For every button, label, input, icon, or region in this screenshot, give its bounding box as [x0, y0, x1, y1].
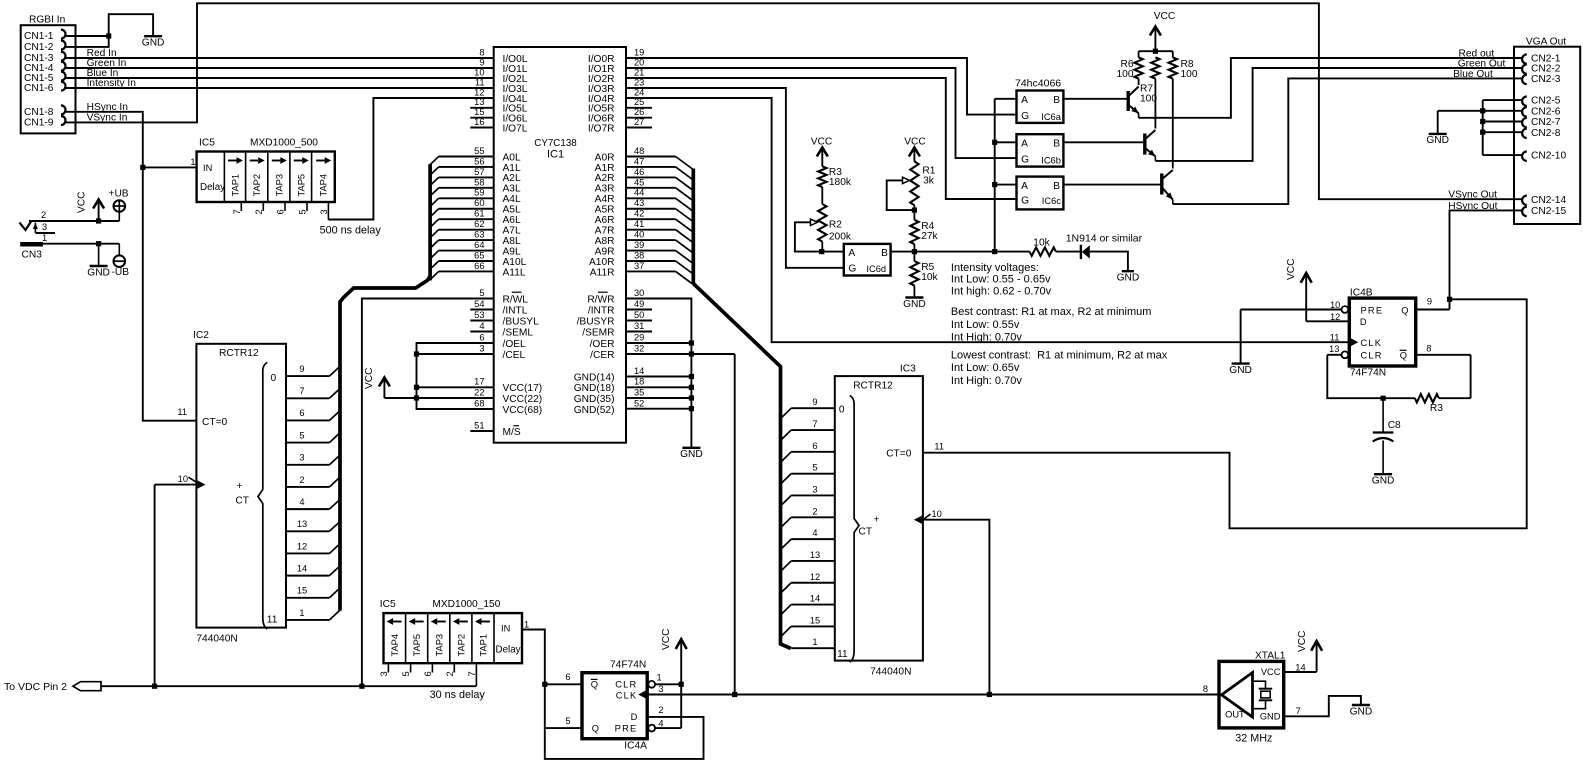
svg-text:/CEL: /CEL	[503, 350, 526, 361]
junction A IC6c	[992, 182, 997, 187]
svg-text:VSync Out: VSync Out	[1448, 190, 1497, 201]
svg-text:CN2-7: CN2-7	[1531, 117, 1561, 128]
svg-text:3: 3	[319, 209, 329, 214]
transistor Q3 (blue)	[1162, 0, 1523, 204]
pin CN2-7	[1522, 117, 1561, 128]
svg-text:39: 39	[634, 240, 644, 250]
svg-text:5: 5	[565, 716, 570, 726]
pin 1 wire (CN3)	[42, 233, 119, 244]
svg-text:Blue Out: Blue Out	[1453, 69, 1493, 80]
delay line IC5 MXD1000_500	[190, 138, 334, 202]
svg-text:D: D	[631, 712, 638, 722]
svg-text:IC6d: IC6d	[866, 264, 886, 274]
svg-text:G: G	[848, 264, 856, 275]
svg-text:744040N: 744040N	[196, 634, 237, 645]
svg-text:Int Low: 0.65v: Int Low: 0.65v	[951, 362, 1020, 374]
wire Qbar out (IC4B)	[1416, 355, 1471, 398]
transistor Q1 (red)	[1128, 0, 1522, 118]
counter IC3 744040N	[835, 364, 923, 678]
wire CN2 ground group	[1438, 100, 1523, 155]
svg-text:11: 11	[267, 614, 278, 625]
svg-text:11: 11	[837, 649, 848, 660]
junction R/WL/bottom line	[359, 684, 364, 689]
svg-text:Q: Q	[1401, 305, 1408, 315]
crystal symbol	[1253, 681, 1273, 709]
wire TAP4 to I/O4L	[328, 98, 493, 220]
svg-text:OUT: OUT	[1225, 710, 1245, 720]
ground (IC4B PRE)	[1229, 364, 1252, 376]
svg-text:VCC: VCC	[1261, 667, 1281, 677]
ground (CN2)	[1426, 134, 1449, 146]
svg-text:45: 45	[634, 177, 644, 187]
wire HSync In	[64, 102, 196, 421]
wire D to Qbar loop	[545, 684, 704, 759]
IC1 right address pins A0R-A11R	[589, 146, 692, 284]
power VCC (XTAL1)	[1297, 630, 1322, 652]
svg-text:54: 54	[474, 299, 484, 309]
svg-text:PRE: PRE	[1361, 305, 1384, 315]
svg-text:VCC: VCC	[1286, 258, 1297, 280]
pin 3 stub (CN3)	[33, 222, 55, 233]
svg-text:Q: Q	[591, 680, 598, 690]
svg-text:R3: R3	[1430, 403, 1443, 414]
svg-text:46: 46	[634, 167, 644, 177]
bus IC1 right to IC3	[693, 284, 791, 649]
svg-text:11: 11	[475, 77, 485, 87]
wire pin1 to GND	[98, 244, 100, 266]
svg-text:GND: GND	[1372, 476, 1395, 487]
wire R/WR,/OER,/CER,GND tie	[626, 299, 735, 448]
svg-text:1: 1	[42, 233, 47, 243]
svg-text:A8L: A8L	[503, 236, 521, 247]
pin 11 CT=0 (IC3)	[886, 442, 944, 460]
svg-text:3: 3	[812, 484, 817, 494]
svg-text:C8: C8	[1388, 420, 1401, 431]
junction IC3 clock/CLK line	[987, 692, 992, 697]
svg-text:A0L: A0L	[503, 152, 521, 163]
svg-text:CN2-6: CN2-6	[1531, 106, 1561, 117]
svg-text:VCC: VCC	[1154, 11, 1176, 22]
svg-text:19: 19	[634, 47, 644, 57]
svg-text:42: 42	[634, 209, 644, 219]
label 500 ns delay	[320, 225, 382, 237]
svg-text:A9R: A9R	[595, 246, 615, 257]
svg-text:A0R: A0R	[595, 152, 615, 163]
resistor R5 10k	[910, 261, 938, 285]
pin CN1-8	[24, 105, 66, 118]
svg-text:38: 38	[634, 250, 644, 260]
power -UB	[112, 244, 130, 278]
transistor Q2 (green)	[1145, 0, 1523, 161]
pin CN1-4	[24, 62, 66, 75]
svg-text:RGBI In: RGBI In	[29, 15, 65, 26]
analog switch IC6b	[1017, 134, 1064, 166]
svg-text:IC6b: IC6b	[1041, 155, 1061, 165]
svg-text:CN2-8: CN2-8	[1531, 128, 1561, 139]
svg-text:IC3: IC3	[900, 364, 916, 375]
svg-text:TAP1: TAP1	[478, 634, 488, 657]
label VSync Out	[1448, 190, 1497, 201]
svg-text:A6L: A6L	[503, 215, 521, 226]
svg-text:A4L: A4L	[503, 194, 521, 205]
svg-text:IC1: IC1	[547, 149, 564, 161]
svg-text:GND: GND	[1350, 706, 1373, 717]
svg-text:63: 63	[474, 230, 484, 240]
svg-text:44: 44	[634, 188, 644, 198]
svg-text:10k: 10k	[921, 272, 938, 283]
svg-text:64: 64	[474, 240, 484, 250]
label 30 ns delay	[430, 689, 486, 701]
svg-text:5: 5	[298, 209, 308, 214]
svg-text:A8R: A8R	[595, 236, 615, 247]
svg-text:61: 61	[474, 209, 484, 219]
wire I/O2R to IC6c G	[626, 78, 1017, 199]
clock wedge (IC4A)	[638, 690, 646, 698]
svg-text:47: 47	[634, 156, 644, 166]
svg-text:CT=0: CT=0	[886, 449, 912, 460]
svg-text:55: 55	[474, 146, 484, 156]
pin 9 label (IC4B)	[1427, 297, 1432, 307]
svg-text:CN1-2: CN1-2	[24, 42, 54, 53]
svg-text:13: 13	[297, 519, 307, 529]
svg-text:74hc4066: 74hc4066	[1015, 78, 1061, 90]
label Blue Out	[1453, 69, 1493, 80]
svg-text:51: 51	[474, 420, 484, 430]
pin CN1-6	[24, 82, 66, 95]
svg-text:I/O7L: I/O7L	[503, 123, 528, 134]
svg-text:8: 8	[1426, 344, 1431, 354]
svg-text:8: 8	[479, 47, 484, 57]
junction 4066 A-node	[992, 249, 997, 254]
svg-text:RCTR12: RCTR12	[219, 348, 259, 359]
svg-text:GND: GND	[680, 449, 703, 460]
svg-text:GND(18): GND(18)	[574, 383, 615, 394]
svg-text:RCTR12: RCTR12	[853, 381, 893, 392]
potentiometer R1 3k	[887, 161, 936, 210]
pin 2 wire (CN3)	[29, 210, 119, 221]
svg-text:17: 17	[474, 377, 484, 387]
svg-text:53: 53	[474, 310, 484, 320]
svg-text:14: 14	[297, 563, 307, 573]
svg-text:32: 32	[634, 343, 644, 353]
svg-text:XTAL1: XTAL1	[1255, 650, 1286, 661]
svg-text:CN2-5: CN2-5	[1531, 96, 1561, 107]
svg-text:G: G	[1021, 111, 1029, 122]
svg-text:CN1-6: CN1-6	[24, 83, 54, 94]
svg-text:Best contrast: R1 at max, R2 a: Best contrast: R1 at max, R2 at minimum	[951, 306, 1152, 318]
junction VCC(17)	[414, 385, 419, 390]
dual-port RAM IC1 CY7C138	[494, 47, 626, 443]
clock wedge (IC4B)	[1330, 332, 1359, 346]
svg-text:35: 35	[634, 387, 644, 397]
pin CN1-2	[24, 41, 66, 54]
svg-text:A2L: A2L	[503, 173, 521, 184]
svg-text:59: 59	[474, 188, 484, 198]
wire clock IC3	[923, 520, 990, 695]
wire 4066 A vertical	[994, 99, 996, 252]
counter IC2 744040N	[193, 330, 286, 645]
svg-text:27: 27	[634, 117, 644, 127]
wire PRE to VCC (IC4A)	[655, 640, 681, 729]
bus vertical (IC1 left A pins)	[428, 164, 432, 280]
IC2 output pins to bus	[286, 364, 340, 620]
resistor R6 100	[1117, 51, 1143, 80]
power VCC (IC4A)	[661, 628, 687, 650]
IC1 left address pins A0L-A11L	[430, 146, 527, 280]
svg-text:100: 100	[1117, 69, 1134, 80]
svg-text:/OEL: /OEL	[503, 339, 527, 350]
svg-text:CLK: CLK	[616, 691, 638, 701]
svg-text:TAP1: TAP1	[231, 174, 241, 197]
svg-text:10: 10	[1330, 300, 1340, 310]
resistor R7 100	[1140, 57, 1160, 104]
wire /OEL,/CEL,VCC tie	[384, 343, 493, 409]
wire CLR loop (IC4B)	[1327, 355, 1470, 398]
bus vertical (IC1 right A pins)	[691, 169, 695, 285]
svg-text:30: 30	[634, 288, 644, 298]
svg-text:7: 7	[467, 671, 477, 676]
svg-text:74F74N: 74F74N	[1350, 368, 1386, 379]
svg-text:TAP3: TAP3	[274, 174, 284, 197]
svg-text:6: 6	[479, 332, 484, 342]
svg-text:7: 7	[232, 209, 242, 214]
IC1 right I/O pin labels	[588, 47, 652, 134]
svg-text:A11L: A11L	[503, 267, 526, 278]
wire Green In	[64, 58, 494, 69]
svg-text:GND(52): GND(52)	[574, 405, 615, 416]
potentiometer R2 200k	[795, 204, 852, 252]
svg-text:IC6c: IC6c	[1042, 196, 1061, 206]
svg-text:/CER: /CER	[590, 350, 614, 361]
diode 1N914	[1066, 233, 1143, 260]
svg-text:CT=0: CT=0	[202, 417, 228, 428]
svg-text:IN: IN	[203, 163, 212, 173]
junction IC2 clock/bottom	[152, 684, 157, 689]
svg-text:57: 57	[474, 167, 484, 177]
svg-text:A11R: A11R	[590, 267, 615, 278]
wire CN1-2 to GND junction	[64, 14, 153, 47]
svg-text:10: 10	[932, 509, 942, 519]
svg-text:A7L: A7L	[503, 225, 521, 236]
svg-text:VCC: VCC	[661, 628, 672, 650]
svg-text:31: 31	[634, 321, 644, 331]
svg-text:A: A	[1021, 139, 1028, 150]
pin CN1-1	[24, 30, 66, 43]
svg-text:6: 6	[565, 672, 570, 682]
pin CN1-3	[24, 52, 66, 65]
svg-text:6: 6	[423, 671, 433, 676]
svg-text:A9L: A9L	[503, 246, 521, 257]
IC1 left control pins	[470, 288, 539, 361]
power VCC (R6-R8 rail)	[1139, 11, 1176, 51]
resistor R4 27k	[910, 220, 938, 244]
svg-text:4: 4	[658, 718, 663, 728]
pin 11 CT=0 (IC2)	[177, 407, 227, 428]
svg-text:TAP4: TAP4	[390, 634, 400, 657]
junction /CER/CLK line	[732, 692, 737, 697]
note lowest contrast	[951, 350, 1168, 387]
svg-text:3: 3	[299, 453, 304, 463]
wire PRE to GND (IC4B)	[1241, 310, 1342, 364]
tap arrows/labels (150ns delay)	[387, 618, 490, 656]
note intensity voltages	[951, 262, 1052, 297]
pin 5 Q stub (IC4A)	[546, 716, 582, 728]
svg-text:To VDC Pin 2: To VDC Pin 2	[4, 681, 67, 693]
pin CN1-5	[24, 72, 66, 85]
wire A pin IC6a	[995, 98, 1017, 100]
tap arrows/labels (500ns delay)	[228, 157, 331, 196]
svg-text:A2R: A2R	[595, 173, 615, 184]
svg-text:IC4A: IC4A	[624, 741, 647, 752]
wire CN1-1 to GND junction	[64, 35, 109, 37]
svg-text:5: 5	[401, 671, 411, 676]
brace (IC3)	[837, 396, 879, 663]
svg-text:Intensity In: Intensity In	[87, 78, 136, 89]
svg-text:GND: GND	[1260, 711, 1281, 721]
junction VCC(22)	[414, 395, 419, 400]
pin M/S (IC1)	[470, 420, 521, 437]
power VCC (IC4B)	[1286, 258, 1312, 282]
svg-text:1: 1	[812, 637, 817, 647]
svg-text:37: 37	[634, 261, 644, 271]
svg-text:52: 52	[634, 398, 644, 408]
svg-text:60: 60	[474, 198, 484, 208]
oscillator XTAL1 32 MHz	[1219, 650, 1286, 744]
pin 2 label (IC4A)	[658, 705, 663, 715]
svg-text:58: 58	[474, 177, 484, 187]
svg-text:6: 6	[299, 408, 304, 418]
svg-text:GND: GND	[903, 299, 926, 310]
svg-text:66: 66	[474, 261, 484, 271]
junction /OER	[689, 340, 694, 345]
wire A pin IC6b	[995, 141, 1017, 143]
pin 14 VCC (XTAL1)	[1284, 642, 1317, 673]
IC1 left I/O pin labels	[470, 47, 527, 134]
wire HSync Out	[1450, 210, 1523, 299]
node To VDC Pin 2	[4, 681, 101, 693]
svg-text:3: 3	[658, 684, 663, 694]
svg-text:Intensity voltages:: Intensity voltages:	[951, 262, 1039, 274]
svg-text:B: B	[1053, 95, 1060, 106]
wire B row (intensity node)	[891, 251, 1030, 253]
svg-text:6: 6	[276, 209, 286, 214]
wire /CER to CLK line	[734, 354, 736, 695]
svg-text:+UB: +UB	[109, 188, 129, 199]
svg-text:14: 14	[810, 594, 820, 604]
junction A IC6b	[992, 140, 997, 145]
svg-text:A1R: A1R	[595, 163, 615, 174]
wire B IC6b to Q2	[1063, 141, 1143, 143]
pin CN2-8	[1522, 128, 1561, 139]
note best contrast	[951, 306, 1152, 343]
bubble PRE (IC4B)	[1330, 300, 1348, 313]
svg-text:CLR: CLR	[1361, 350, 1383, 360]
svg-text:5: 5	[299, 430, 304, 440]
resistor 10k (intensity)	[1030, 237, 1056, 256]
svg-text:A10R: A10R	[589, 257, 614, 268]
wire Q out (IC4B)	[1416, 299, 1450, 309]
analog switch IC6a	[1017, 91, 1064, 123]
svg-text:A: A	[1021, 181, 1028, 192]
wire clock IC2 to bottom line	[154, 485, 156, 687]
svg-text:CN2-10: CN2-10	[1531, 151, 1566, 162]
pin 7 GND (XTAL1)	[1284, 696, 1361, 716]
svg-text:4: 4	[479, 321, 484, 331]
svg-text:14: 14	[1295, 663, 1305, 673]
svg-text:+: +	[237, 481, 243, 492]
svg-text:62: 62	[474, 219, 484, 229]
svg-text:30 ns delay: 30 ns delay	[430, 689, 486, 701]
analog switch IC6d	[844, 244, 891, 276]
svg-text:13: 13	[474, 97, 484, 107]
wire R3-R2	[821, 187, 823, 204]
analog switch IC6c	[1017, 177, 1064, 210]
svg-text:Int Low: 0.55v: Int Low: 0.55v	[951, 319, 1020, 331]
svg-text:9: 9	[1427, 297, 1432, 307]
svg-text:/INTR: /INTR	[588, 305, 615, 316]
svg-text:0: 0	[839, 405, 845, 416]
wire HSync to delay IN	[143, 166, 197, 168]
pin CN2-3	[1522, 74, 1561, 85]
svg-text:22: 22	[474, 387, 484, 397]
ground (diode)	[1117, 271, 1140, 283]
pin 8 label (IC4B)	[1426, 344, 1431, 354]
svg-text:TAP2: TAP2	[252, 174, 262, 197]
svg-text:/INTL: /INTL	[503, 305, 528, 316]
svg-text:VCC: VCC	[904, 136, 926, 147]
wire Intensity In	[64, 78, 494, 89]
wire R5 to GND	[913, 286, 915, 298]
svg-text:VGA Out: VGA Out	[1526, 36, 1566, 47]
junction GND35	[689, 395, 694, 400]
svg-text:IC5: IC5	[199, 138, 215, 149]
svg-text:IC6a: IC6a	[1041, 112, 1061, 122]
svg-text:GND: GND	[142, 38, 165, 49]
svg-text:Lowest contrast: R1 at minimu: Lowest contrast: R1 at minimum, R2 at ma…	[951, 350, 1168, 362]
wire I/O1R to IC6b G	[626, 68, 1017, 158]
svg-text:Int High: 0.70v: Int High: 0.70v	[951, 332, 1022, 344]
wire R1-R4	[913, 210, 915, 220]
svg-text:15: 15	[810, 615, 820, 625]
clock pin 10 (IC3)	[914, 509, 942, 524]
wire VSync In (top route)	[64, 3, 1522, 199]
svg-text:TAP5: TAP5	[412, 634, 422, 657]
svg-text:IC5: IC5	[380, 599, 396, 610]
pin CN2-10	[1522, 151, 1566, 162]
svg-text:50: 50	[634, 310, 644, 320]
svg-text:VCC(68): VCC(68)	[503, 405, 543, 416]
svg-text:40: 40	[634, 230, 644, 240]
ground (CN1)	[142, 36, 165, 48]
junction Qbar/D loop	[542, 682, 547, 687]
svg-text:68: 68	[474, 398, 484, 408]
wire delay IN to IC4A	[522, 630, 582, 685]
pin CN2-14	[1522, 195, 1566, 206]
svg-text:4: 4	[812, 528, 817, 538]
svg-text:PRE: PRE	[615, 723, 638, 733]
svg-text:B: B	[881, 248, 888, 259]
svg-text:A5R: A5R	[595, 205, 615, 216]
wire I/O3R to IC6d G	[626, 88, 844, 268]
svg-text:3: 3	[479, 343, 484, 353]
wire CLR to VCC (IC4A)	[655, 683, 681, 685]
ground (CN3)	[87, 266, 110, 278]
junction CN1-1/CN1-2	[106, 33, 111, 38]
svg-text:VCC(17): VCC(17)	[503, 383, 543, 394]
svg-text:IN: IN	[501, 624, 510, 634]
svg-text:A10L: A10L	[503, 257, 527, 268]
pin 8 label (XTAL1)	[1203, 684, 1208, 694]
